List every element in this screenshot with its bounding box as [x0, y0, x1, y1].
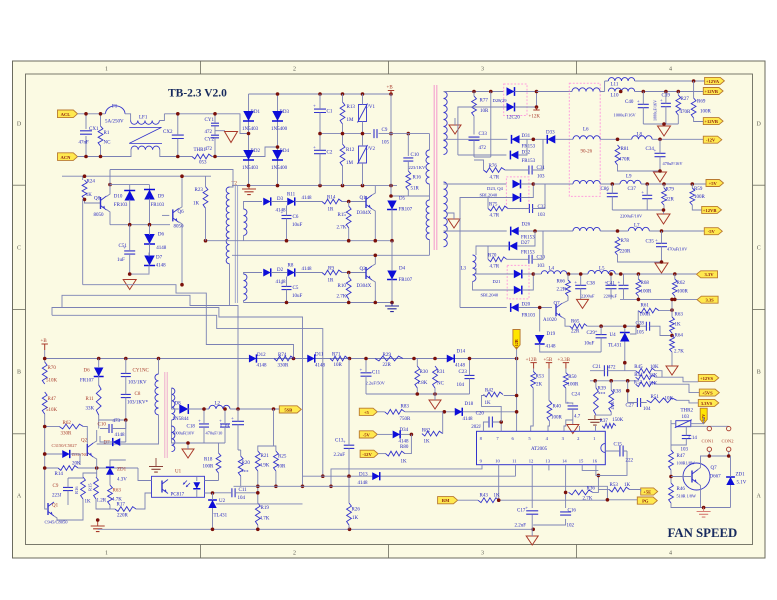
label Q8	[94, 197, 101, 202]
label 2.2uF C13	[334, 453, 346, 458]
wire R17 to opto	[136, 493, 152, 509]
wire L10 to flag	[635, 91, 704, 93]
svg-text:1N5400: 1N5400	[271, 127, 288, 132]
wire D5 bottom	[391, 209, 393, 241]
label D18	[465, 402, 474, 407]
wire C20 leads	[483, 420, 503, 431]
svg-text:BD4: BD4	[280, 149, 290, 154]
wire C10 branch top	[407, 134, 409, 156]
label C19	[221, 425, 230, 430]
transistor Q7 fan circle	[683, 463, 710, 490]
wire D19 bottom	[540, 344, 601, 352]
inductor L3	[473, 255, 476, 281]
label R46 value	[677, 494, 696, 499]
wire R31 bottom	[434, 388, 436, 394]
wire U4 leads	[625, 326, 636, 352]
label C21	[593, 365, 602, 370]
wire snubber join	[99, 420, 126, 429]
svg-text:/V2: /V2	[368, 147, 376, 152]
label R36	[587, 487, 596, 492]
wire mid rail	[320, 133, 371, 135]
diode D28	[507, 87, 515, 96]
svg-text:3.3S: 3.3S	[705, 298, 714, 303]
label C6	[293, 215, 299, 220]
wire gnd standby	[187, 443, 189, 449]
label 223J	[52, 494, 62, 499]
inductor L4	[541, 271, 567, 274]
svg-text:ZD1: ZD1	[117, 468, 127, 473]
svg-text:D26: D26	[522, 223, 531, 228]
resistor R47 standby	[42, 392, 47, 414]
svg-text:510K: 510K	[46, 408, 58, 413]
resistor R30	[415, 366, 420, 388]
resistor R36	[569, 490, 593, 495]
svg-text:1N5400: 1N5400	[271, 166, 288, 171]
label R8	[288, 264, 294, 269]
label 20K	[72, 462, 81, 467]
varistor V2	[358, 145, 368, 164]
svg-text:FR103: FR103	[522, 314, 536, 319]
resistor R11 standby	[96, 385, 101, 415]
svg-text:C20: C20	[476, 412, 485, 417]
svg-text:+5E: +5E	[643, 490, 651, 495]
svg-text:100R: 100R	[677, 290, 689, 295]
svg-text:R11: R11	[287, 193, 296, 198]
label C39	[662, 94, 671, 99]
transistor Q1	[366, 195, 372, 209]
svg-text:2200uF/10V: 2200uF/10V	[620, 214, 643, 219]
zener ZD1 fan	[726, 477, 735, 485]
wire T2 primary bottom	[229, 264, 231, 306]
label R38	[613, 390, 622, 395]
svg-text:R78: R78	[621, 239, 630, 244]
capacitor CY2	[211, 135, 219, 138]
label 1K R42	[485, 401, 492, 406]
dot PG line	[497, 498, 609, 502]
resistor R65	[570, 324, 587, 329]
svg-text:1K: 1K	[85, 500, 92, 505]
svg-text:103: 103	[681, 448, 689, 453]
resistor R14	[322, 199, 342, 204]
svg-text:13: 13	[545, 458, 550, 463]
wire L8 to flag	[652, 138, 703, 140]
capacitor C24	[567, 401, 579, 409]
wire Q7a collector	[562, 317, 570, 326]
label Q7 fan	[711, 466, 718, 471]
svg-text:R70: R70	[48, 366, 57, 371]
wire sec row3	[444, 183, 507, 185]
wire aux rail2	[62, 176, 211, 180]
wire -5V to D34	[377, 433, 392, 435]
svg-text:R80: R80	[400, 445, 409, 450]
svg-text:+: +	[313, 146, 316, 151]
wire R26 leads	[348, 476, 350, 529]
svg-text:D31: D31	[522, 134, 531, 139]
port +12VB flag	[703, 88, 723, 95]
label D9	[158, 195, 165, 200]
svg-text:U4: U4	[610, 333, 617, 338]
svg-text:+5V: +5V	[709, 181, 718, 186]
wire R42 ends	[482, 394, 519, 422]
svg-text:R45: R45	[634, 365, 643, 370]
label 510K R47	[46, 408, 58, 413]
label R21	[261, 454, 270, 459]
svg-text:C34: C34	[646, 147, 655, 152]
svg-text:CON1: CON1	[702, 439, 715, 444]
svg-text:D18: D18	[465, 402, 474, 407]
svg-text:15: 15	[579, 458, 584, 463]
transistor Q7 fan	[692, 470, 698, 484]
diode D6 snubber	[94, 368, 104, 377]
svg-text:C10: C10	[411, 153, 420, 158]
svg-text:+: +	[595, 330, 598, 335]
zone tick top 1-2	[200, 61, 202, 74]
wire R40 to pin4	[548, 421, 549, 431]
svg-text:+12VB: +12VB	[703, 208, 717, 213]
wire +5 to R83	[377, 411, 385, 413]
wire R19 leads	[257, 471, 259, 529]
wire -12V to R80	[378, 453, 386, 455]
transformer T2 sec winding top	[244, 209, 247, 235]
wire Q2 collector	[372, 255, 375, 266]
svg-text:U1: U1	[175, 470, 182, 475]
svg-text:FR153: FR153	[521, 236, 535, 241]
transistor Q8	[101, 196, 107, 210]
pin 10 number	[495, 458, 500, 463]
wire V2 leads	[362, 134, 364, 186]
svg-text:R13: R13	[347, 105, 356, 110]
label R83	[401, 405, 410, 410]
dots bottom bus	[211, 528, 535, 532]
svg-text:R17: R17	[117, 503, 126, 508]
svg-text:12C20: 12C20	[507, 116, 521, 121]
resistor R16	[406, 171, 411, 190]
svg-text:100R: 100R	[700, 110, 712, 115]
wire R16 lead	[407, 161, 409, 171]
capacitor C35	[655, 239, 667, 247]
svg-text:L8: L8	[637, 133, 643, 138]
label 10R R71	[334, 363, 343, 368]
label 4148 R8	[302, 267, 313, 272]
wire R83 right	[405, 410, 455, 414]
svg-text:D33: D33	[546, 131, 555, 136]
wire C24 bottom	[572, 409, 574, 425]
svg-text:R47: R47	[677, 454, 686, 459]
label BD3	[280, 110, 290, 115]
label 10K R45	[650, 365, 659, 370]
wire R45 right	[655, 371, 698, 382]
IC U3 notch	[601, 444, 606, 453]
wire R62 left	[45, 426, 60, 428]
label C33	[479, 132, 488, 137]
wire R10 leads	[348, 273, 350, 303]
svg-text:11: 11	[512, 458, 517, 463]
resistor R45	[636, 368, 656, 373]
svg-text:-12V: -12V	[706, 138, 716, 143]
wire Q1s base	[45, 503, 48, 509]
label 4148 D7	[156, 264, 167, 269]
svg-text:L9: L9	[626, 175, 632, 180]
svg-text:2K: 2K	[536, 383, 543, 388]
label L11	[611, 82, 619, 87]
label FR103 D20	[522, 314, 536, 319]
flag +12B vertical	[513, 330, 520, 350]
label L5	[599, 267, 605, 272]
svg-text:2.2uF: 2.2uF	[515, 524, 527, 529]
diode D8 standby	[179, 404, 188, 414]
label R80	[400, 445, 409, 450]
resistor R47 fan	[669, 450, 674, 470]
diode D21	[514, 270, 522, 279]
svg-text:C9: C9	[382, 128, 388, 133]
label 1K R63	[675, 323, 682, 328]
label 1K R24	[86, 193, 93, 198]
label R53 pg	[610, 483, 619, 488]
label R40	[553, 405, 562, 410]
varistor V1	[358, 104, 368, 123]
svg-text:R37: R37	[600, 419, 609, 424]
dots standby rail	[43, 357, 518, 361]
svg-text:PC817: PC817	[171, 493, 185, 498]
zener U4 TL431	[620, 333, 630, 342]
dot D20 node	[538, 306, 542, 310]
label R11	[287, 193, 296, 198]
wire R23 leads	[205, 176, 207, 241]
wire C5 leads	[286, 277, 288, 303]
wire D6 leads	[149, 225, 151, 257]
label 1N5400 BD4	[271, 166, 288, 171]
zone tick left C-B	[13, 309, 26, 311]
label CX1	[89, 127, 99, 132]
svg-text:472: 472	[608, 365, 616, 370]
wire R9 to Q2	[342, 272, 366, 274]
svg-text:TL431: TL431	[608, 344, 622, 349]
svg-text:4148: 4148	[302, 267, 313, 272]
flag +12V vertical	[700, 408, 707, 424]
svg-text:R82: R82	[422, 429, 431, 434]
resistor R71	[330, 356, 348, 361]
label 90-26	[581, 150, 593, 155]
resistor R12	[340, 144, 345, 166]
label U1	[175, 470, 182, 475]
pin 16 number	[592, 458, 597, 463]
label R29	[383, 353, 392, 358]
label D31	[522, 134, 531, 139]
svg-text:C1: C1	[327, 110, 333, 115]
svg-text:R30: R30	[420, 370, 429, 375]
label D2	[277, 268, 284, 273]
resistor R43	[478, 498, 499, 503]
label L10	[611, 94, 620, 99]
transformer T2 sec winding bottom	[244, 274, 247, 300]
label R37	[600, 419, 609, 424]
svg-text:+: +	[567, 401, 570, 406]
label C37	[628, 187, 637, 192]
inductor L6 winding3	[573, 180, 600, 184]
wire R18 bottom	[218, 473, 220, 481]
svg-text:22R: 22R	[383, 363, 392, 368]
svg-text:CY1: CY1	[205, 118, 215, 123]
wire R47 down	[44, 414, 46, 503]
resistor R62 out	[672, 279, 677, 296]
svg-text:750R: 750R	[400, 417, 412, 422]
dots rail row2	[285, 254, 394, 305]
diode D5	[387, 201, 397, 210]
label 473 fb	[113, 419, 121, 424]
wire D3WNC leads	[45, 454, 80, 465]
capacitor C34 out	[654, 149, 666, 157]
svg-text:4148: 4148	[257, 364, 268, 369]
svg-text:B: B	[757, 370, 761, 376]
svg-text:R42: R42	[485, 389, 494, 394]
label 1uF	[117, 258, 125, 263]
diode D33	[547, 135, 555, 144]
wire pin16 node	[596, 451, 627, 475]
svg-text:Q1: Q1	[360, 196, 367, 201]
ground chassis fb	[429, 394, 441, 409]
svg-text:R16: R16	[74, 486, 79, 494]
zone label 4 bottom	[669, 551, 672, 557]
diode D23	[513, 180, 521, 189]
pink box D21	[507, 265, 529, 299]
label R15	[338, 213, 347, 218]
wire C41 leads	[610, 274, 612, 299]
pin 9 number	[480, 458, 483, 463]
transformer T2 label	[232, 182, 238, 187]
svg-text:12: 12	[529, 458, 534, 463]
resistor R15 standby	[94, 477, 99, 499]
wire CY1NC leads	[125, 359, 127, 421]
capacitor C30	[529, 255, 532, 264]
wire R76 left	[474, 160, 484, 170]
resistor R39	[594, 388, 599, 415]
svg-text:+: +	[198, 419, 201, 424]
capacitor C1	[313, 105, 326, 113]
wire D20 row	[460, 307, 507, 309]
svg-text:47nF: 47nF	[79, 141, 90, 146]
svg-text:C27: C27	[626, 404, 635, 409]
resistor R76	[484, 168, 506, 173]
label FR107 D6s	[80, 379, 94, 384]
label D32	[522, 151, 531, 156]
svg-text:-12V: -12V	[362, 452, 372, 457]
svg-text:LF1: LF1	[139, 116, 148, 121]
svg-text:R25: R25	[278, 455, 287, 460]
diode D21b	[514, 286, 522, 295]
svg-text:BD3: BD3	[280, 110, 290, 115]
svg-text:1M: 1M	[346, 161, 354, 166]
label C86	[601, 187, 610, 192]
wire R59 leads	[692, 184, 701, 210]
label D11	[315, 353, 324, 358]
label C9 standby	[53, 484, 59, 489]
wire R13 leads	[342, 94, 344, 134]
label 1K R82	[424, 440, 431, 445]
transformer T1 sec winding	[172, 388, 175, 420]
svg-text:2.2uF: 2.2uF	[334, 453, 346, 458]
wire D4 top	[391, 241, 393, 271]
label 4148 D3	[276, 209, 287, 214]
label 472 C21	[608, 365, 616, 370]
resistor R31	[433, 366, 438, 388]
label 8050 Q8	[94, 213, 105, 218]
inductor L5	[588, 270, 615, 274]
wire D6s leads	[98, 359, 100, 386]
svg-text:Q7: Q7	[554, 302, 561, 307]
wire C11 aux leads	[213, 492, 258, 494]
ground chassis standby	[182, 449, 194, 458]
svg-text:+12VB: +12VB	[704, 89, 718, 94]
resistor R81 out	[615, 145, 620, 165]
thermistor THR2	[675, 420, 692, 428]
label THR2	[681, 409, 694, 414]
svg-text:33K: 33K	[86, 407, 95, 412]
svg-text:1: 1	[105, 67, 108, 73]
svg-text:U2: U2	[219, 499, 226, 504]
wire Q1 emitter	[372, 209, 375, 241]
wire mid bus 486	[234, 486, 608, 500]
resistor R17	[115, 507, 136, 512]
svg-text:1K: 1K	[485, 401, 492, 406]
svg-text:C: C	[757, 246, 761, 252]
ground earth Q1s	[91, 520, 105, 532]
svg-text:R31: R31	[437, 370, 446, 375]
wire C36 leads	[623, 274, 625, 299]
label 51R	[411, 187, 420, 192]
svg-text:10: 10	[495, 458, 500, 463]
label 100R R61	[640, 313, 652, 318]
power port +B	[387, 86, 395, 97]
svg-text:R39: R39	[598, 387, 607, 392]
svg-text:+: +	[525, 506, 528, 511]
dot R14s	[43, 425, 99, 470]
label L8	[637, 133, 643, 138]
svg-text:8050: 8050	[94, 213, 105, 218]
label LF1	[139, 116, 148, 121]
svg-text:1000uF(10V: 1000uF(10V	[172, 431, 195, 436]
svg-text:4.3V: 4.3V	[117, 478, 127, 483]
label L2	[215, 402, 221, 407]
resistor R62 standby	[59, 424, 83, 429]
label D3	[277, 197, 284, 202]
svg-text:4.7R: 4.7R	[490, 265, 500, 270]
label C27	[626, 404, 635, 409]
label D6 snubber	[84, 369, 91, 374]
svg-text:R46: R46	[677, 487, 686, 492]
label 100R R18	[203, 465, 215, 470]
label L6	[583, 128, 589, 133]
wire D31 to D33	[520, 138, 548, 140]
dot R65 node	[599, 324, 603, 328]
svg-text:+5B: +5B	[544, 358, 553, 363]
dot bridge ACL	[247, 132, 251, 136]
wire bottom bus	[98, 528, 534, 530]
svg-text:R43: R43	[480, 494, 489, 499]
wire L9 to flag	[641, 183, 706, 185]
wire pin1 stub	[595, 426, 597, 431]
power port +B standby	[41, 339, 48, 350]
svg-text:100R: 100R	[568, 383, 580, 388]
svg-text:+3.3B: +3.3B	[558, 358, 571, 363]
label D27	[521, 241, 530, 246]
svg-text:473: 473	[113, 419, 121, 424]
label 100R R59	[694, 195, 706, 200]
svg-text:R14: R14	[55, 472, 64, 477]
wire right vert	[671, 299, 673, 317]
label R31	[437, 370, 446, 375]
svg-text:R11: R11	[86, 397, 95, 402]
inductor L11	[608, 78, 634, 81]
